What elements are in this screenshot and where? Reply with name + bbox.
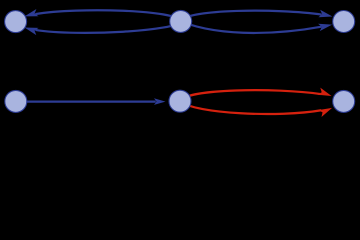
node B (top center) — [170, 10, 192, 32]
edge E-F upper (red arc) — [180, 90, 321, 101]
edge B-C lower (blue arc) — [181, 21, 322, 33]
edge B-C upper (blue arc) — [181, 11, 322, 22]
node E (bottom center) — [169, 90, 191, 112]
edge B-A lower (blue arc) — [35, 21, 180, 32]
node C (top right) — [333, 11, 355, 33]
node A (top left) — [5, 11, 27, 33]
node F (bottom right) — [333, 90, 355, 112]
node D (bottom left) — [5, 90, 27, 112]
edge D-E straight (blue) — [16, 100, 156, 102]
edge E-F lower (red arc) — [180, 101, 321, 114]
edge B-A upper (blue arc) — [35, 10, 180, 21]
